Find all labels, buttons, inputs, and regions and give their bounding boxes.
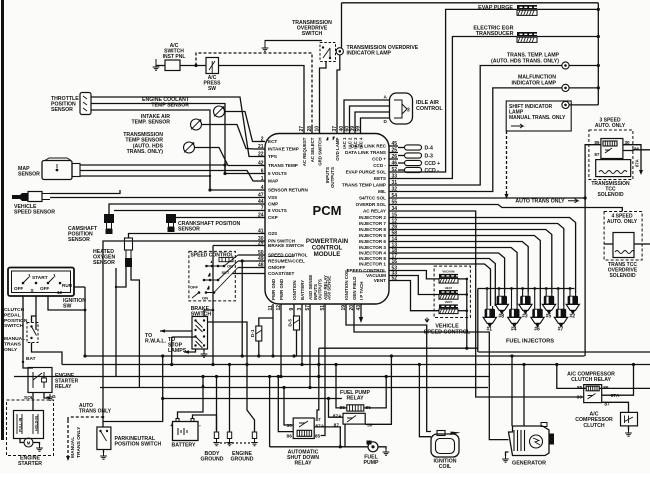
svg-text:IAC 2: IAC 2	[348, 137, 353, 149]
svg-text:3: 3	[297, 308, 303, 311]
body ground	[214, 432, 218, 439]
svg-text:24: 24	[258, 213, 264, 219]
svg-text:29: 29	[258, 241, 264, 247]
fuel injector #2	[570, 293, 576, 296]
PCM left pin 41 O2S	[255, 233, 265, 235]
PCM bottom pin 3 BATTERY	[301, 304, 303, 312]
svg-text:11: 11	[268, 305, 274, 311]
svg-text:CLUTCH: CLUTCH	[4, 307, 25, 313]
PCM right pin 18 INJECTOR 4	[389, 252, 398, 254]
PCM right pin 28 INJECTOR 8	[389, 229, 398, 231]
diode D-1	[259, 318, 273, 326]
svg-text:GROUND: GROUND	[200, 457, 223, 463]
svg-text:8 VOLTS: 8 VOLTS	[268, 208, 287, 213]
svg-text:MANUAL: MANUAL	[4, 336, 25, 342]
dashed wire shift lamp manual trans	[506, 131, 508, 196]
svg-text:85: 85	[315, 433, 321, 439]
svg-text:31: 31	[392, 180, 398, 186]
ignition coil wires	[419, 365, 431, 437]
svg-text:EVAP PURGE: EVAP PURGE	[478, 5, 513, 11]
svg-text:33: 33	[392, 174, 398, 180]
PCM right pin 12 INJECTOR 7	[389, 223, 398, 225]
svg-text:#2: #2	[570, 314, 576, 320]
svg-text:VENT: VENT	[374, 278, 386, 283]
svg-text:ONLY: ONLY	[4, 347, 18, 353]
svg-text:OVERDR SOL: OVERDR SOL	[356, 202, 387, 207]
svg-text:GEN FIELD: GEN FIELD	[352, 277, 357, 300]
PCM left pin 24 CKP	[255, 217, 265, 219]
PCM left pin 48 ON/OFF	[255, 267, 265, 269]
wire evap purge to rail	[537, 8, 598, 10]
wire battery - to ground	[193, 415, 217, 430]
svg-text:INDICATOR LAMP: INDICATOR LAMP	[347, 51, 392, 57]
PCM right pin 31 TRANS TEMP LAMP	[389, 184, 398, 186]
svg-text:VSS: VSS	[268, 195, 277, 200]
wire injector pin row 6	[398, 248, 517, 307]
PCM left pin 6 5 VOLTS	[255, 173, 265, 175]
svg-text:37: 37	[332, 126, 338, 132]
svg-text:AUTO. ONLY: AUTO. ONLY	[607, 219, 638, 225]
svg-text:SOLENOID: SOLENOID	[609, 273, 636, 279]
ASD 87A wire to fuel pump line	[314, 427, 340, 447]
svg-text:D-1: D-1	[250, 329, 255, 337]
wire PCM 54 to TCC	[398, 197, 585, 199]
wire 8 volts to pin 7	[114, 210, 255, 212]
PCM left pin 50 SPEED CONTROL	[255, 254, 265, 256]
fuel injector #6	[535, 306, 541, 309]
svg-text:SOLENOID: SOLENOID	[597, 192, 624, 198]
TCC wires	[585, 145, 601, 356]
fuel injector #4	[512, 306, 518, 309]
wire MIL to rail	[569, 87, 598, 89]
PCM right pin 34 AC RELAY	[389, 210, 398, 212]
svg-text:SWITCH: SWITCH	[302, 31, 323, 37]
PCM left pin 22 TPS	[255, 156, 265, 158]
automatic shutdown relay	[293, 418, 314, 439]
svg-text:INJECTOR 8: INJECTOR 8	[359, 256, 386, 261]
svg-text:SPEED CONTROL: SPEED CONTROL	[424, 329, 471, 335]
PCM bottom pin 43 I P TACH	[360, 304, 362, 312]
wire PCM 34 AC relay down right side	[398, 211, 584, 397]
PCM right pin 54 S4/TCC SOL	[389, 197, 398, 199]
A/C relay 87A wire	[602, 365, 634, 396]
PCM top pin 27 AC REQUEST	[303, 126, 305, 134]
vehicle speed control servos	[434, 266, 470, 317]
svg-text:OFF: OFF	[190, 285, 199, 290]
TCC solenoid	[596, 160, 631, 177]
wire injector pin row 5	[398, 242, 528, 294]
fuel pump feed line	[270, 446, 368, 448]
PCM left pin 4 SENSOR RETURN	[255, 189, 265, 191]
svg-text:OFF: OFF	[14, 286, 23, 291]
PCM left pin 44 CMP	[255, 203, 265, 205]
ASD 87 feed to injectors	[317, 348, 319, 418]
svg-text:CKP: CKP	[268, 215, 278, 220]
battery	[173, 422, 199, 441]
PCM top pin 59 IAC 4	[360, 126, 362, 134]
svg-text:INJECTOR 1: INJECTOR 1	[359, 262, 386, 267]
wire PWR GND pins down	[272, 312, 274, 357]
wire EGR to rail	[537, 36, 598, 38]
right feed rail	[597, 3, 599, 105]
speed control box drop	[241, 261, 243, 356]
svg-text:MODULE: MODULE	[314, 251, 341, 258]
svg-text:IAC 4: IAC 4	[359, 137, 364, 149]
svg-text:OUTPUTS: OUTPUTS	[318, 279, 323, 300]
svg-text:42: 42	[258, 161, 264, 167]
fuel injector #5	[546, 293, 552, 296]
svg-text:57: 57	[305, 305, 311, 311]
svg-text:44: 44	[258, 199, 264, 205]
fuel injector #8	[499, 293, 505, 296]
svg-text:SENSOR: SENSOR	[51, 107, 73, 113]
svg-text:D-4: D-4	[425, 145, 433, 151]
PCM right pin 13 INJECTOR 3	[389, 247, 398, 249]
svg-text:START: START	[32, 275, 48, 281]
PCM bottom pin 9 IGNITION	[293, 304, 295, 312]
svg-text:TPS: TPS	[268, 154, 277, 159]
ground for A/C switch	[153, 64, 160, 70]
PCM right pin 25 DATA LINK TRANS	[389, 152, 398, 154]
svg-text:INJECTOR 6: INJECTOR 6	[359, 239, 386, 244]
PCM left pin 30 P/N SWITCH	[255, 240, 265, 242]
svg-text:20: 20	[349, 305, 355, 311]
svg-text:CMP: CMP	[268, 202, 278, 207]
svg-text:32: 32	[392, 187, 398, 193]
svg-text:2: 2	[261, 137, 264, 143]
svg-text:S: S	[31, 288, 34, 293]
svg-text:-: -	[199, 423, 201, 429]
PCM left pin COAST/SET	[255, 273, 265, 275]
svg-text:SENSOR: SENSOR	[93, 260, 115, 266]
wire MAP signal to pin 1	[80, 171, 255, 182]
PCM right pin 14 INJECTOR 6	[389, 241, 398, 243]
svg-text:6: 6	[261, 169, 264, 175]
data link connector D-4	[398, 147, 405, 149]
wire to RWAL	[160, 330, 192, 332]
svg-text:CCD +: CCD +	[425, 161, 441, 167]
wire trans temp sensor to pin 42	[195, 148, 256, 166]
wire injector pin row 4	[398, 236, 540, 307]
svg-text:22: 22	[258, 152, 264, 158]
svg-text:7: 7	[261, 206, 264, 212]
wires PCM to speed control servos	[398, 271, 439, 279]
engine starter	[7, 400, 54, 456]
svg-text:A50 SENSE: A50 SENSE	[327, 276, 332, 300]
svg-text:9: 9	[289, 308, 295, 311]
transmission overdrive indicator lamp	[336, 48, 343, 55]
svg-text:43: 43	[356, 305, 362, 311]
fuel injector #1	[487, 306, 493, 309]
svg-text:I P TACH: I P TACH	[359, 282, 364, 300]
wire P/N switch to pin 30	[103, 241, 255, 427]
svg-text:SENSOR: SENSOR	[178, 227, 200, 233]
svg-text:30: 30	[367, 422, 373, 428]
svg-text:87: 87	[315, 417, 321, 423]
svg-text:52: 52	[392, 276, 398, 282]
wire press switch to PCM pin 27	[219, 66, 305, 127]
svg-text:TEMP SENSOR: TEMP SENSOR	[151, 103, 189, 109]
svg-text:1: 1	[261, 176, 264, 182]
svg-text:BAT: BAT	[26, 356, 36, 362]
svg-text:#1: #1	[487, 327, 493, 333]
wire PCM pin 52 to evap purge	[398, 9, 517, 172]
svg-text:MAP: MAP	[268, 179, 278, 184]
svg-text:VENT: VENT	[445, 300, 453, 304]
svg-text:12: 12	[57, 290, 63, 295]
PCM right pin 46 CCD -	[389, 165, 398, 167]
fuel pump	[368, 442, 378, 452]
svg-text:87A: 87A	[333, 414, 342, 420]
wire PCM pin 32 to MIL	[398, 88, 562, 192]
svg-text:#3: #3	[522, 314, 528, 320]
PCM left pin 21 INTAKE TEMP	[255, 148, 265, 150]
svg-text:86: 86	[287, 433, 293, 439]
svg-text:R.W.A.L.: R.W.A.L.	[145, 339, 167, 345]
wire A/C switch to press switch	[180, 65, 206, 67]
svg-text:TRANS TEMP: TRANS TEMP	[268, 163, 298, 168]
svg-text:41: 41	[258, 229, 264, 235]
svg-text:EETS: EETS	[374, 176, 386, 181]
svg-text:25: 25	[392, 148, 398, 154]
svg-text:IAC 3: IAC 3	[353, 137, 358, 149]
data link connector CCD -	[398, 169, 405, 171]
svg-text:DATA LINK TRANS: DATA LINK TRANS	[345, 150, 386, 155]
svg-text:4: 4	[261, 185, 264, 191]
svg-text:TRANS ONLY: TRANS ONLY	[79, 409, 112, 415]
svg-text:D-5: D-5	[288, 319, 293, 327]
svg-text:(AUTO. HDS TRANS. ONLY): (AUTO. HDS TRANS. ONLY)	[491, 58, 559, 64]
wire injector pin row 7	[398, 253, 505, 293]
PCM right pin 52 EVAP PURGE SOL	[389, 171, 398, 173]
svg-text:LAMPS: LAMPS	[168, 348, 187, 354]
PCM left pin 47 VSS	[255, 197, 265, 199]
PCM top pin 37 OVD LAMP	[336, 126, 338, 134]
svg-text:PWR GND: PWR GND	[279, 279, 284, 300]
svg-text:10: 10	[315, 126, 321, 132]
svg-text:CCD -: CCD -	[425, 168, 440, 174]
PCM top pin 60 IAC 2	[349, 126, 351, 134]
svg-text:SW: SW	[63, 304, 71, 310]
svg-text:54: 54	[392, 193, 398, 199]
PCM bottom pin 57 ASD SENSE	[309, 304, 311, 312]
svg-text:SWITCH: SWITCH	[4, 323, 24, 329]
svg-text:RELAY: RELAY	[346, 396, 364, 402]
PCM right pin 15 INJECTOR 2	[389, 217, 398, 219]
wire intake air sensor to pin 21	[202, 125, 256, 150]
svg-text:INJECTOR 2: INJECTOR 2	[359, 215, 386, 220]
wire injector pin row 8	[398, 259, 495, 307]
bus fuel pump	[163, 398, 342, 400]
wire trans temp lamp to rail	[569, 65, 598, 67]
svg-text:#5: #5	[546, 314, 552, 320]
shift indicator lamp	[562, 101, 569, 108]
svg-text:HEAT: HEAT	[445, 286, 453, 290]
ASD relay wires	[284, 388, 293, 426]
svg-text:RELAY: RELAY	[55, 384, 72, 390]
svg-text:ON: ON	[202, 296, 208, 301]
wire lamp to top feed rail	[341, 3, 343, 48]
PCM left pin 1 MAP	[255, 180, 265, 182]
svg-text:28: 28	[307, 126, 313, 132]
svg-text:#4: #4	[511, 327, 517, 333]
PCM powertrain control module U1	[265, 134, 389, 305]
svg-text:27: 27	[299, 126, 305, 132]
data link connector D-3	[398, 155, 405, 157]
svg-text:CLUTCH: CLUTCH	[583, 423, 605, 429]
PCM top pin 28 AC SELECT	[311, 126, 313, 134]
svg-text:SENSOR: SENSOR	[68, 237, 90, 243]
svg-text:46: 46	[392, 161, 398, 167]
svg-text:AC RELAY: AC RELAY	[363, 209, 386, 214]
speed control wires to pins 50 49 48	[238, 254, 255, 256]
svg-text:AC REQUEST: AC REQUEST	[302, 137, 307, 166]
wire IP tach 43 stub	[360, 312, 362, 318]
svg-text:INJECTOR 5: INJECTOR 5	[359, 233, 386, 238]
PCM right pin 53 SPEED CONTROL	[389, 270, 398, 272]
svg-text:GRD SWITCH: GRD SWITCH	[318, 138, 323, 166]
svg-text:BRAKE SWITCH: BRAKE SWITCH	[268, 243, 304, 248]
wire gen field 20 right and down	[354, 312, 509, 440]
PCM bottom pin 20 GEN FIELD	[353, 304, 355, 312]
svg-text:AC SELECT: AC SELECT	[310, 137, 315, 162]
svg-text:CONTROL: CONTROL	[416, 106, 443, 112]
wires from ignition switch down	[22, 296, 24, 362]
svg-text:MIL: MIL	[378, 189, 386, 194]
svg-text:SPEED SENSOR: SPEED SENSOR	[14, 210, 55, 216]
wire MAP 5V	[80, 164, 225, 166]
brake switch ground	[203, 349, 205, 351]
svg-text:INJECTOR 3: INJECTOR 3	[359, 245, 386, 250]
svg-text:87: 87	[594, 152, 600, 157]
svg-text:55: 55	[392, 200, 398, 206]
PCM bottom pin 11 PWR GND	[272, 304, 274, 312]
svg-text:30: 30	[287, 423, 293, 429]
wire PCM pin 31 to trans temp lamp	[398, 66, 562, 186]
svg-text:5 VOLTS: 5 VOLTS	[268, 171, 287, 176]
PCM right pin 16 INJECTOR 1	[389, 263, 398, 265]
diode D-5	[294, 316, 300, 330]
wire P/N to right	[103, 356, 163, 422]
wire VSS to pin 47	[50, 197, 255, 199]
svg-text:87A: 87A	[635, 159, 640, 167]
top feed rail B+	[342, 2, 599, 4]
svg-text:INST PNL: INST PNL	[163, 54, 186, 60]
A/C press switch	[206, 58, 219, 74]
svg-text:POSITION SWITCH: POSITION SWITCH	[115, 442, 162, 448]
PCM bottom pin 19 IGNITION COIL	[345, 304, 347, 312]
svg-text:21: 21	[258, 144, 264, 150]
svg-text:SENSOR: SENSOR	[18, 172, 40, 178]
svg-text:AUTO. ONLY: AUTO. ONLY	[595, 123, 626, 129]
svg-text:34: 34	[392, 206, 398, 212]
PCM right pin 33 EETS	[389, 178, 398, 180]
svg-text:AUTO TRANS ONLY: AUTO TRANS ONLY	[515, 199, 565, 205]
svg-text:ON/OFF: ON/OFF	[268, 265, 286, 270]
vertical left feed from ignition switch	[84, 310, 86, 356]
wire MAP return	[80, 176, 210, 190]
wire brake switch to pin 29	[213, 245, 255, 247]
fuel injector #3	[523, 293, 529, 296]
engine ground	[227, 432, 231, 439]
svg-text:BATTERY: BATTERY	[300, 280, 305, 300]
svg-text:POSITION: POSITION	[4, 318, 28, 324]
wire ASD to injector feed	[319, 347, 478, 349]
svg-text:TRANS: TRANS	[4, 341, 22, 347]
bus under fuel injectors	[478, 351, 650, 353]
svg-text:19: 19	[341, 305, 347, 311]
TCC relay	[601, 139, 623, 159]
svg-text:51: 51	[320, 305, 326, 311]
transmission overdrive switch	[320, 43, 336, 62]
wire TPS signal to pin 22	[91, 97, 255, 157]
svg-text:IAC 1: IAC 1	[342, 137, 347, 149]
A/C relay 85 wire to bus	[557, 365, 586, 389]
generator wires	[506, 452, 509, 456]
svg-text:IGNITION COIL: IGNITION COIL	[344, 268, 349, 300]
starter motor	[24, 438, 33, 447]
servo common return	[458, 278, 467, 280]
bus battery feed	[62, 364, 650, 366]
svg-text:VACUUM: VACUUM	[442, 270, 455, 274]
svg-text:52: 52	[392, 167, 398, 173]
svg-text:45: 45	[392, 141, 398, 147]
wire stop lamp feed	[171, 337, 173, 365]
svg-text:GENERATOR: GENERATOR	[512, 461, 546, 467]
wire battery pin 3 down	[301, 312, 303, 365]
PCM top pin 39 IAC 3	[354, 126, 356, 134]
svg-text:TRANS TEMP LAMP: TRANS TEMP LAMP	[342, 183, 386, 188]
PCM bottom pin 51 ASD RELAY	[324, 304, 326, 312]
svg-text:SENSOR RETURN: SENSOR RETURN	[268, 188, 308, 193]
bus ASD feed	[100, 387, 488, 389]
svg-text:MANUAL TRANS. ONLY: MANUAL TRANS. ONLY	[509, 115, 566, 121]
PCM top pin 10 GRD SWITCH	[319, 126, 321, 134]
svg-text:GROUND: GROUND	[230, 457, 253, 463]
wire lamp to PCM pin 37	[337, 55, 340, 126]
svg-text:STARTER: STARTER	[18, 461, 42, 467]
wire battery + up	[178, 377, 204, 419]
svg-text:#8: #8	[499, 314, 505, 320]
PCM right pin 32 MIL	[389, 191, 398, 193]
wire ASD relay 51 down	[321, 312, 325, 436]
svg-text:FUEL INJECTORS: FUEL INJECTORS	[506, 339, 554, 345]
svg-text:HOLD-IN: HOLD-IN	[35, 416, 39, 431]
svg-text:BATTERY: BATTERY	[172, 443, 196, 449]
svg-text:30: 30	[577, 394, 583, 400]
PCM left pin 7 8 VOLTS	[255, 210, 265, 212]
svg-text:COAST/SET: COAST/SET	[268, 271, 294, 276]
svg-text:12: 12	[276, 305, 282, 311]
svg-text:48: 48	[258, 263, 264, 269]
wire ground to A/C switch	[156, 65, 165, 67]
ignition switch	[8, 268, 74, 297]
wire CMP to pin 44	[109, 204, 255, 214]
wire TPS return	[91, 110, 255, 190]
PCM left pin 2 ECT	[255, 141, 265, 143]
wire to stop lamps	[184, 349, 196, 352]
svg-text:INDICATOR LAMP: INDICATOR LAMP	[512, 80, 557, 86]
wire BAT down to starter relay	[23, 362, 33, 368]
ignition coil	[431, 434, 459, 457]
svg-text:#6: #6	[534, 327, 540, 333]
4 speed auto only box	[604, 212, 642, 261]
wire injector pin row 3	[398, 230, 552, 294]
park/neutral position switch	[97, 427, 111, 450]
PCM top pin 40 IAC 1	[343, 126, 345, 134]
wire TPS 5V	[91, 104, 255, 174]
bus ignition feed	[85, 355, 585, 357]
